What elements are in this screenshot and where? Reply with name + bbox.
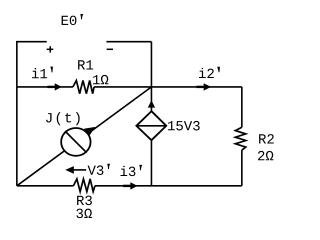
label R3 bbox=[77, 196, 92, 206]
apostrophe wedge i1' bbox=[50, 67, 53, 71]
label J(t) bbox=[46, 112, 80, 125]
wire main horizontal right of R1 bbox=[94, 86, 242, 88]
dependent source diamond bbox=[136, 111, 166, 140]
minus sign of E0' bbox=[107, 48, 113, 50]
wire right vertical above R2 bbox=[241, 87, 243, 127]
label 1ohm bbox=[93, 75, 108, 84]
apostrophe wedge E0' bbox=[80, 14, 83, 18]
apostrophe wedge i2' bbox=[217, 67, 220, 71]
wire node vertical lower (diamond to bottom wire) bbox=[150, 140, 152, 186]
resistor R3 bbox=[73, 179, 95, 192]
plus sign of E0' bbox=[47, 46, 54, 52]
wire top-right segment bbox=[106, 41, 151, 43]
label 2ohm bbox=[258, 151, 273, 160]
current arrow i1' bbox=[47, 86, 55, 88]
wire bottom left of R3 bbox=[17, 185, 74, 187]
label i1' bbox=[32, 68, 53, 78]
resistor R1 bbox=[73, 81, 94, 94]
current arrow i2' bbox=[196, 86, 204, 88]
current source slash bbox=[65, 131, 87, 153]
apostrophe wedge V3' bbox=[107, 164, 110, 168]
wire right vertical below R2 bbox=[241, 150, 243, 186]
dependent source arrowhead bbox=[148, 100, 155, 107]
wire main horizontal left of R1 bbox=[17, 86, 73, 88]
label i3' bbox=[120, 166, 141, 176]
voltage arrow V3' bbox=[71, 169, 86, 171]
label R2 bbox=[259, 134, 274, 143]
wire diagonal from bottom-left corner to node bbox=[17, 87, 152, 186]
label E0' bbox=[62, 15, 83, 25]
current arrow i3' bbox=[123, 185, 131, 187]
wire left vertical bbox=[16, 87, 18, 186]
wire top-left segment bbox=[17, 42, 47, 87]
wire bottom right of R3 bbox=[95, 185, 242, 187]
label 3ohm bbox=[76, 209, 92, 219]
label 15V3 bbox=[168, 121, 200, 131]
current source arrowhead on diagonal bbox=[84, 127, 96, 136]
label i2' bbox=[199, 68, 220, 78]
dependent source diamond middle line bbox=[136, 125, 166, 127]
apostrophe wedge i3' bbox=[139, 165, 142, 169]
wire node vertical upper (top wire to diamond) bbox=[150, 42, 152, 112]
current source J(t) circle bbox=[61, 128, 90, 156]
label V3' bbox=[88, 165, 110, 175]
label R1 bbox=[78, 60, 93, 69]
resistor R2 bbox=[235, 127, 245, 150]
